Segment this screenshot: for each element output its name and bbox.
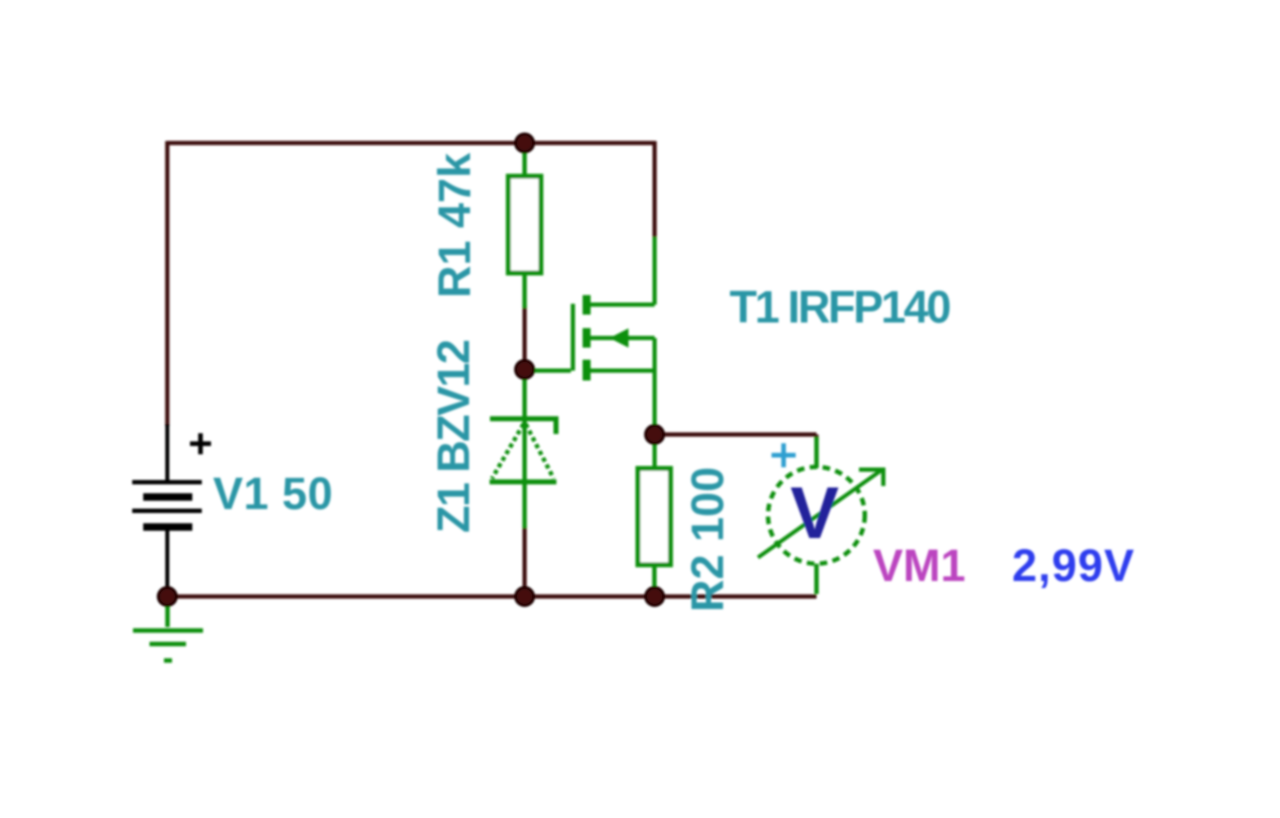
transistor T1 drain horizontal (590, 303, 655, 307)
resistor R2 body (638, 468, 671, 564)
wire left rail (165, 141, 169, 426)
svg-text:R2 100: R2 100 (682, 467, 733, 612)
wire right drop from top rail to T1 drain (652, 141, 656, 237)
svg-text:VM1: VM1 (873, 540, 966, 591)
transistor T1 source horizontal (590, 369, 655, 373)
battery V1 plate 2 (143, 493, 192, 501)
battery V1 plate 3 (132, 509, 202, 513)
wire R1 bottom to gate node (522, 306, 526, 362)
transistor T1 source vertical lead to R2 (652, 338, 656, 467)
transistor T1 bulk arrow (610, 328, 629, 347)
wire source node to voltmeter top (655, 432, 817, 436)
voltmeter VM1 top lead (814, 437, 818, 468)
node source / R2 / meter (646, 426, 664, 444)
wire Z1 anode to bottom rail (522, 527, 526, 594)
zener Z1 top lead (522, 370, 526, 420)
node battery minus / ground (158, 588, 176, 606)
zener Z1 cathode bar with hook (490, 419, 556, 434)
battery V1 plate 4 (143, 523, 192, 531)
transistor T1 channel middle segment (583, 328, 591, 348)
transistor T1 gate horizontal lead (526, 369, 571, 373)
transistor T1 bulk horizontal with source join (590, 336, 655, 340)
wire bottom rail (167, 594, 817, 598)
voltmeter VM1 plus sign (772, 443, 796, 467)
wire top rail (167, 141, 655, 145)
resistor R1 body (508, 176, 541, 273)
zener Z1 center lead through body (522, 420, 526, 528)
battery V1 bottom lead (165, 530, 169, 590)
wire voltmeter right drop corner (814, 435, 818, 441)
svg-text:Z1 BZV12: Z1 BZV12 (428, 340, 479, 533)
voltmeter VM1 circle (768, 467, 865, 564)
zener Z1 triangle right side (dashed) (526, 424, 554, 479)
voltmeter VM1 bottom lead (814, 564, 818, 594)
svg-text:2,99V: 2,99V (1012, 540, 1135, 591)
voltmeter VM1 needle arrowhead (859, 470, 883, 486)
battery V1 top lead (165, 424, 169, 480)
resistor R1 top lead (522, 145, 526, 176)
resistor R1 bottom lead (522, 273, 526, 308)
svg-text:V1 50: V1 50 (213, 468, 333, 519)
battery V1 plate 1 (132, 480, 202, 484)
svg-text:T1 IRFP140: T1 IRFP140 (730, 282, 951, 333)
transistor T1 drain vertical lead (652, 237, 656, 305)
zener Z1 triangle left side (dashed) (492, 424, 524, 479)
zener Z1 anode base bar (490, 479, 557, 484)
transistor T1 gate vertical bar (571, 304, 575, 371)
node Z1 bottom rail (516, 588, 534, 606)
ground symbol (133, 597, 203, 661)
resistor R2 bottom lead (652, 565, 656, 594)
transistor T1 channel bottom segment (583, 360, 591, 381)
node R2 bottom rail (646, 588, 664, 606)
svg-text:R1 47k: R1 47k (429, 152, 480, 298)
battery V1 plus sign (190, 433, 211, 454)
node top rail / R1 (516, 134, 534, 152)
voltmeter VM1 needle (758, 471, 881, 558)
svg-text:V: V (790, 473, 839, 554)
node gate / R1 / Z1 (516, 361, 534, 379)
transistor T1 channel top segment (583, 295, 591, 315)
